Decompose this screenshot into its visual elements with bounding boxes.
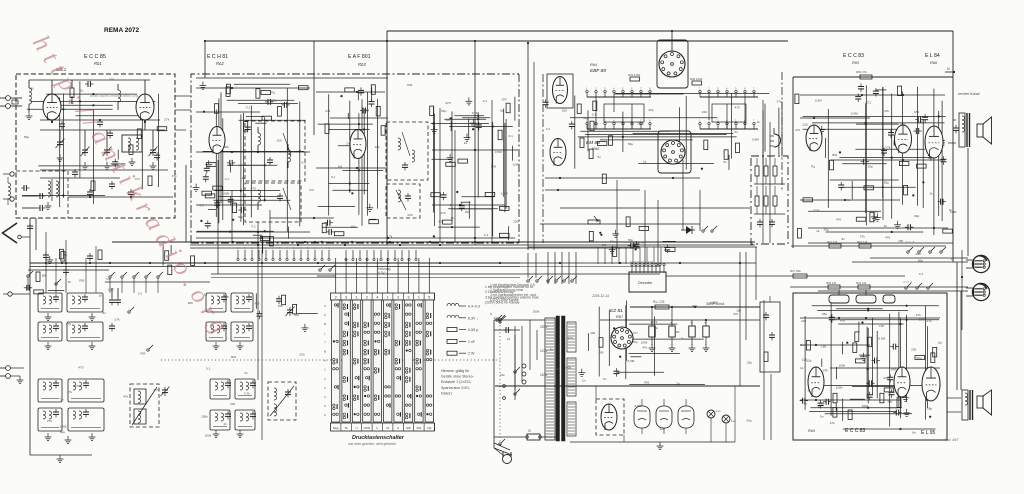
svg-text:1: 1 <box>300 247 302 250</box>
svg-text:100k: 100k <box>651 320 658 324</box>
svg-text:100k: 100k <box>637 121 644 125</box>
label Drucktastenschalter <box>352 435 405 441</box>
svg-text:Rö5: Rö5 <box>852 60 859 65</box>
svg-text:3: 3 <box>345 295 347 299</box>
antenna coil <box>8 177 11 205</box>
svg-text:B: B <box>324 350 326 354</box>
scattered component value labels <box>24 78 957 438</box>
svg-text:6: 6 <box>324 413 326 417</box>
speaker right <box>977 117 992 144</box>
HT junctions <box>651 306 707 321</box>
TA terminal circles <box>0 366 24 384</box>
svg-text:5n: 5n <box>603 377 607 381</box>
svg-text:8: 8 <box>649 119 651 123</box>
bus line y248 <box>190 247 640 249</box>
pot P2 tone <box>856 290 876 303</box>
UKW coupling caps <box>51 119 146 129</box>
svg-text:150: 150 <box>821 345 826 349</box>
label UB 1 <box>56 67 67 72</box>
DIN speaker connector lower <box>966 283 990 300</box>
switch bar lower cluster <box>589 136 739 184</box>
svg-text:30p: 30p <box>887 400 892 404</box>
svg-text:Decoder: Decoder <box>638 281 653 285</box>
power transformer Tr1 <box>545 316 576 441</box>
svg-text:50µ: 50µ <box>24 135 29 139</box>
decoder pin labels <box>630 260 653 264</box>
svg-text:4,7k: 4,7k <box>638 240 644 244</box>
svg-text:0,5M: 0,5M <box>628 359 635 363</box>
svg-text:150: 150 <box>465 210 470 214</box>
svg-text:4: 4 <box>613 87 615 91</box>
svg-text:220: 220 <box>911 347 916 351</box>
resistor Rg 1M d <box>856 281 870 289</box>
UKW tuning capacitor Ca <box>56 139 65 148</box>
svg-text:127V: 127V <box>540 349 549 353</box>
amp top rail <box>793 70 953 79</box>
svg-text:1k: 1k <box>951 257 955 261</box>
socket Roe4 box <box>657 40 688 88</box>
svg-text:220: 220 <box>230 402 235 406</box>
coupling caps column <box>108 288 121 331</box>
svg-text:1: 1 <box>699 87 701 91</box>
svg-text:R97 30k: R97 30k <box>790 269 801 273</box>
svg-text:1M: 1M <box>338 164 343 168</box>
right amp wire run b <box>800 117 870 119</box>
svg-text:27k: 27k <box>67 390 72 394</box>
svg-text:220V: 220V <box>540 325 549 329</box>
IF transformer dashed box F3 <box>386 122 428 180</box>
mixer oscillator components cluster <box>251 224 288 254</box>
EM84 zone wire run b <box>545 189 640 191</box>
svg-text:Rö2: Rö2 <box>216 61 224 66</box>
right amp wire run c <box>830 159 945 161</box>
svg-text:1k: 1k <box>949 208 953 212</box>
svg-text:EBF 89: EBF 89 <box>590 68 606 74</box>
resistor Rg 100k <box>628 73 641 81</box>
svg-text:0,5M: 0,5M <box>878 336 885 340</box>
dipole arrow symbol <box>3 223 31 243</box>
svg-text:C47: C47 <box>106 277 112 281</box>
speaker left <box>977 390 992 415</box>
svg-text:27k: 27k <box>777 99 782 103</box>
EM84 zone wire run a <box>545 177 700 179</box>
bus line y245 <box>190 244 755 246</box>
svg-text:Endstufe 1 (2×ECL: Endstufe 1 (2×ECL <box>441 380 471 384</box>
svg-text:220: 220 <box>702 110 707 114</box>
svg-text:6,3V ↓: 6,3V ↓ <box>468 316 478 320</box>
tube label EL 84 <box>925 53 940 65</box>
IF trafo box row2 left <box>38 322 62 341</box>
svg-text:0,5M: 0,5M <box>815 99 822 103</box>
svg-text:LW: LW <box>427 426 431 430</box>
terminal circle TB <box>3 292 30 296</box>
svg-text:(220V) 50Hz Kanäle: (220V) 50Hz Kanäle <box>490 298 519 302</box>
svg-text:C47: C47 <box>108 288 114 292</box>
svg-text:150: 150 <box>674 330 679 334</box>
svg-text:5n: 5n <box>938 341 942 345</box>
svg-text:150: 150 <box>879 324 884 328</box>
svg-text:0,1: 0,1 <box>919 272 924 276</box>
wave band legend <box>447 303 480 355</box>
svg-text:3: 3 <box>314 247 316 250</box>
psu wiring grid <box>599 301 705 385</box>
svg-text:100k: 100k <box>565 365 572 369</box>
watermark (red diagonal site text) <box>27 31 237 344</box>
svg-text:150: 150 <box>276 138 281 142</box>
IF wiring grid right <box>431 107 513 237</box>
svg-text:4: 4 <box>726 87 728 91</box>
vertical x953 <box>952 31 954 262</box>
UKW tuning capacitor Cc <box>103 147 112 156</box>
UKW wiring grid <box>22 81 158 207</box>
osc mid cluster <box>256 293 318 331</box>
svg-text:Geräte ohne Stereo-: Geräte ohne Stereo- <box>441 375 475 379</box>
svg-text:25µ: 25µ <box>822 312 827 316</box>
svg-text:220: 220 <box>801 319 806 323</box>
note block Hinweis <box>441 369 475 395</box>
svg-text:3: 3 <box>408 295 410 299</box>
svg-text:3: 3 <box>324 386 326 390</box>
risers left of bottom amp <box>756 247 771 440</box>
capacitor C9 <box>27 223 33 231</box>
label EM 84 lower <box>586 140 600 151</box>
svg-text:0,1: 0,1 <box>331 175 336 179</box>
svg-text:8n: 8n <box>103 311 107 315</box>
svg-text:2 Sparausführung ohne: 2 Sparausführung ohne <box>490 288 524 292</box>
svg-text:U: U <box>355 426 357 430</box>
AFC dotted line <box>161 359 500 361</box>
IF trafo box row4 right <box>68 408 104 431</box>
note block wiring <box>485 285 539 305</box>
svg-text:1M: 1M <box>446 118 451 122</box>
svg-text:25µ: 25µ <box>824 228 829 232</box>
svg-text:0,1: 0,1 <box>483 99 488 103</box>
svg-text:1: 1 <box>586 87 588 91</box>
mains voltage selector <box>494 316 549 390</box>
svg-text:10k: 10k <box>500 373 505 377</box>
svg-text:0,1: 0,1 <box>225 177 230 181</box>
svg-text:R94 1M: R94 1M <box>856 281 867 285</box>
svg-text:27k: 27k <box>441 211 446 215</box>
heater chain dashed box <box>596 399 624 435</box>
svg-text:220: 220 <box>109 78 114 82</box>
svg-text:220: 220 <box>494 316 499 320</box>
svg-text:0,5M: 0,5M <box>851 111 858 115</box>
svg-text:27k: 27k <box>47 419 52 423</box>
svg-text:R99: R99 <box>914 110 920 114</box>
pin dots on bus <box>232 241 476 246</box>
resistor chain right <box>690 77 703 85</box>
resistor Rg 1M a <box>827 240 841 248</box>
detector risers <box>440 100 492 243</box>
svg-text:27k: 27k <box>74 384 79 388</box>
svg-text:Rö8: Rö8 <box>930 60 937 65</box>
triode ECC83b <box>895 125 912 153</box>
svg-text:0,1: 0,1 <box>592 112 597 116</box>
label rechter Kanal <box>958 92 980 96</box>
bottom amp wire run d <box>800 399 900 401</box>
antenna feed into IF <box>22 97 30 99</box>
above decoder cluster <box>609 241 676 256</box>
svg-text:5: 5 <box>265 247 267 250</box>
svg-text:3: 3 <box>717 87 719 91</box>
svg-text:1M: 1M <box>602 243 607 247</box>
svg-text:1k: 1k <box>816 229 820 233</box>
svg-text:30p: 30p <box>238 215 243 219</box>
title REMA 2072 <box>104 27 140 34</box>
svg-text:2n: 2n <box>346 141 350 145</box>
svg-text:470: 470 <box>78 366 83 370</box>
pentode EL84 <box>925 126 943 158</box>
svg-text:3: 3 <box>251 247 253 250</box>
svg-text:1: 1 <box>418 295 420 299</box>
UKW tuner dashed box <box>16 74 175 218</box>
IF trafo box row2 right <box>67 322 103 341</box>
label 360V <box>706 302 725 306</box>
svg-text:M: M <box>324 322 327 326</box>
svg-text:R99: R99 <box>555 367 561 371</box>
svg-text:470: 470 <box>567 336 572 340</box>
svg-text:antik-radio-restauration.org: antik-radio-restauration.org <box>90 93 139 98</box>
svg-text:0,5M: 0,5M <box>501 191 508 195</box>
svg-text:6: 6 <box>744 87 746 91</box>
svg-text:4: 4 <box>376 295 378 299</box>
svg-text:R92 1M: R92 1M <box>857 240 868 244</box>
svg-text:5n: 5n <box>64 253 68 257</box>
svg-text:2: 2 <box>335 295 337 299</box>
svg-text:0,1: 0,1 <box>199 204 204 208</box>
svg-text:R99: R99 <box>491 165 497 169</box>
vertical feeder x475 <box>474 40 476 245</box>
svg-text:10k: 10k <box>823 368 829 372</box>
svg-text:100: 100 <box>802 123 808 127</box>
solid edge x186 <box>185 165 187 242</box>
svg-text:+: + <box>690 320 693 325</box>
svg-text:50µ: 50µ <box>441 109 446 113</box>
svg-text:Rö7: Rö7 <box>616 314 623 319</box>
svg-text:2: 2 <box>244 247 246 250</box>
svg-text:1k: 1k <box>464 141 468 145</box>
right amp wire run d <box>800 199 900 201</box>
svg-text:Drucktastenschalter: Drucktastenschalter <box>352 435 405 441</box>
svg-text:1k: 1k <box>800 366 804 370</box>
rectifier socket EZ81 <box>611 327 633 349</box>
svg-text:4: 4 <box>321 247 323 250</box>
svg-text:E C C 83: E C C 83 <box>845 428 866 434</box>
comb to matrix <box>336 258 430 293</box>
svg-text:50µ: 50µ <box>628 238 633 242</box>
dash-dot edge x782 <box>781 72 783 190</box>
svg-text:Rö1: Rö1 <box>94 61 102 66</box>
UKW ground symbols <box>57 154 157 170</box>
svg-text:50µ: 50µ <box>224 295 229 299</box>
svg-text:E C H 81: E C H 81 <box>207 54 228 60</box>
speaker drop wire <box>967 148 969 256</box>
svg-text:100k: 100k <box>839 364 846 368</box>
svg-text:↓f ↓f ↓f: ↓f ↓f ↓f <box>905 240 914 244</box>
svg-text:R99: R99 <box>916 252 922 256</box>
svg-text:5n: 5n <box>451 216 455 220</box>
svg-text:27k: 27k <box>115 317 120 321</box>
resistor Rg 1M b <box>857 240 871 248</box>
left mid extra parts <box>43 250 102 285</box>
UKW output caps <box>22 193 45 211</box>
svg-text:Rö4: Rö4 <box>590 62 597 67</box>
tube label ECC 85 / Roe1 <box>84 54 106 66</box>
pot P3 <box>883 295 895 303</box>
svg-text:220: 220 <box>513 220 518 224</box>
resistor R5 <box>36 272 46 282</box>
matrix footnote <box>348 442 396 446</box>
right amp wiring grid <box>803 85 946 235</box>
svg-text:100k: 100k <box>205 434 212 438</box>
IF transformer dashed box F1 <box>245 121 305 181</box>
UKW to IF drop wires <box>46 232 96 293</box>
svg-text:UKW: UKW <box>364 426 371 430</box>
svg-text:0,1: 0,1 <box>867 101 872 105</box>
ferrite trimmer <box>161 387 170 396</box>
left-of-box cluster column <box>760 296 780 372</box>
coil L2 <box>118 84 121 110</box>
IF dash-dot bottom <box>191 242 519 244</box>
svg-text:R99: R99 <box>832 153 838 157</box>
UKW wires <box>29 80 165 147</box>
svg-text:27k: 27k <box>860 235 865 239</box>
svg-text:M: M <box>947 67 950 71</box>
svg-text:L: L <box>377 426 379 430</box>
svg-text:8n: 8n <box>912 431 916 435</box>
svg-text:0,5M: 0,5M <box>472 111 479 115</box>
mains lead <box>494 320 512 455</box>
top bus line B <box>205 40 788 42</box>
vertical feeder x388 <box>386 31 388 245</box>
dipole terminal circles <box>3 172 14 201</box>
svg-text:U: U <box>324 304 326 308</box>
tube label EM84 top <box>590 62 606 74</box>
main mid bus <box>30 263 520 267</box>
triode-hexode ECH81 <box>209 127 225 154</box>
svg-text:C47: C47 <box>309 188 315 192</box>
switch bar connectors <box>596 97 745 129</box>
connector drop wires <box>957 258 970 390</box>
svg-text:0,1: 0,1 <box>246 106 251 110</box>
speaker lines lower <box>790 287 968 291</box>
decoder feed comb <box>598 247 661 264</box>
svg-text:6,3V~: 6,3V~ <box>378 271 387 275</box>
ECH81 anode components cluster <box>200 82 309 133</box>
svg-text:R98 100k: R98 100k <box>690 77 703 81</box>
IF trafo box row1 right <box>67 293 103 312</box>
left stub y270 <box>28 269 109 271</box>
tastensatz left cluster <box>163 245 195 275</box>
long verticals right of switch <box>763 100 770 243</box>
svg-text:SW: SW <box>406 426 411 430</box>
tube label ECC 83 top <box>843 53 864 65</box>
switch wafer pin combs <box>237 250 417 261</box>
svg-text:5n: 5n <box>245 371 249 375</box>
svg-text:8n: 8n <box>847 198 851 202</box>
svg-text:100k: 100k <box>919 317 926 321</box>
pot P1 volume <box>829 290 849 303</box>
svg-text:2: 2 <box>397 295 399 299</box>
svg-text:470: 470 <box>885 236 890 240</box>
chassis bus y386 <box>495 385 760 387</box>
mid bus right part <box>520 263 756 267</box>
bottom left rail <box>30 455 92 463</box>
vertical drops mid-left <box>218 160 270 440</box>
M tap tick <box>945 67 955 73</box>
psu small parts <box>578 327 641 376</box>
label EL95 <box>921 430 935 436</box>
IF T3 coils <box>398 132 415 170</box>
svg-text:K: K <box>324 313 326 317</box>
svg-text:30p: 30p <box>914 214 919 218</box>
svg-text:30p: 30p <box>583 116 588 120</box>
IF trafo box row4 left <box>38 408 62 431</box>
svg-text:von oben gesehen, nicht gedrüc: von oben gesehen, nicht gedrückt <box>348 442 396 446</box>
IF box wire run d <box>270 217 334 219</box>
HT rail <box>600 306 760 320</box>
vertical comb to transformer <box>528 252 576 284</box>
right amp components cluster <box>795 84 952 239</box>
IF section dash-dot box <box>191 74 519 243</box>
svg-text:5: 5 <box>328 247 330 250</box>
svg-text:27k: 27k <box>795 128 800 132</box>
small tube V4b <box>550 139 566 166</box>
AFC switch details <box>503 327 520 400</box>
svg-text:Ln1: Ln1 <box>716 409 721 413</box>
svg-text:220: 220 <box>299 353 304 357</box>
svg-text:1M: 1M <box>29 87 34 91</box>
ratio detector cluster <box>431 191 509 240</box>
svg-text:10k: 10k <box>438 220 443 224</box>
svg-text:0,1: 0,1 <box>251 224 256 228</box>
IF box wire run b <box>316 167 386 169</box>
right IF column boxes <box>206 293 253 341</box>
IF T2 coil <box>258 188 291 210</box>
bottom amp wire run b <box>800 344 870 346</box>
svg-text:2: 2 <box>595 87 597 91</box>
svg-text:5: 5 <box>324 404 326 408</box>
heater bus y274 <box>211 274 660 278</box>
AFC dotted vertical <box>499 315 505 446</box>
svg-text:47k: 47k <box>884 109 889 113</box>
svg-text:1k: 1k <box>681 336 685 340</box>
row3-4 grounds <box>45 433 96 444</box>
bottom amp wiring grid <box>805 303 941 431</box>
svg-text:R91 1M: R91 1M <box>827 240 838 244</box>
svg-text:TA: TA <box>344 426 348 430</box>
svg-text:5n: 5n <box>800 343 804 347</box>
osc coil cluster <box>268 382 296 420</box>
svg-text:47k: 47k <box>123 394 128 398</box>
capacitor C2 <box>85 81 93 87</box>
svg-text:M: M <box>387 426 390 430</box>
svg-text:1k: 1k <box>99 293 103 297</box>
svg-text:5n: 5n <box>60 398 64 402</box>
svg-text:1k: 1k <box>450 203 454 207</box>
svg-text:27k: 27k <box>164 118 169 122</box>
svg-text:2n: 2n <box>582 378 586 382</box>
tube label EAF 801 / Roe3 <box>348 54 371 67</box>
bottom amp box <box>793 293 947 440</box>
antenna filter dashed divider <box>16 171 68 218</box>
small tube V4a <box>547 74 573 108</box>
svg-text:0,5M: 0,5M <box>362 109 369 113</box>
pentode EAF801 <box>350 130 366 159</box>
IF horizontal runs <box>196 87 388 233</box>
antenna terminal circles <box>0 96 22 109</box>
